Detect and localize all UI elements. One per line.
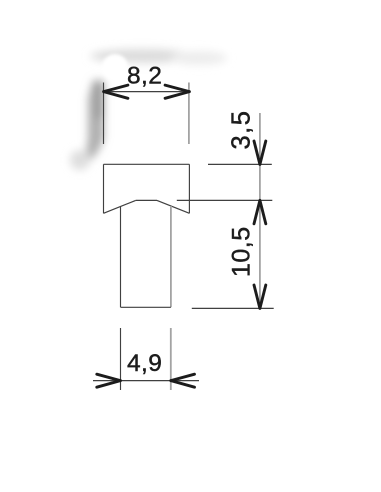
- extension line at stem bottom right: [192, 307, 274, 309]
- dim 8,2 left extension line: [103, 83, 105, 145]
- dim 4,9 dimension line with tails: [93, 380, 199, 382]
- dim 8,2 left arrowhead: [104, 85, 128, 98]
- dim 10,5 lower arrowhead (points down): [254, 285, 266, 308]
- dim 4,9 right extension line (light): [170, 328, 172, 390]
- dim 8,2 right arrowhead: [165, 85, 189, 98]
- dim 3,5 upper arrowhead (points down): [254, 141, 266, 164]
- dim 3,5/10,5 vertical dimension line (light): [259, 113, 261, 308]
- svg-text:3,5: 3,5: [228, 110, 256, 150]
- extension line at head top right: [208, 163, 272, 165]
- svg-text:10,5: 10,5: [228, 226, 256, 277]
- scan shadow smudge cloud: [70, 49, 227, 170]
- head bottom left diagonal: [104, 200, 136, 213]
- stem right edge (light): [170, 206, 172, 307]
- head right edge: [188, 164, 190, 213]
- head top edge: [104, 163, 190, 165]
- white notch circle: [102, 54, 135, 87]
- dim 8,2 dimension line: [104, 91, 190, 93]
- extension line at notch flat level: [177, 199, 272, 201]
- stem left edge: [120, 207, 122, 308]
- head bottom right diagonal: [157, 200, 189, 213]
- stem bottom edge: [121, 306, 171, 308]
- dim 3,5 / 10,5 shared arrowhead (points up): [254, 200, 266, 223]
- dim 4,9 right arrowhead (points left): [171, 374, 195, 387]
- head left edge: [103, 164, 105, 213]
- svg-text:8,2: 8,2: [127, 63, 162, 90]
- head bottom flat: [136, 199, 157, 201]
- svg-text:4,9: 4,9: [127, 350, 162, 377]
- dim 4,9 left arrowhead (points right): [97, 374, 121, 387]
- dim 8,2 right extension line (light): [188, 83, 190, 145]
- dim 4,9 left extension line: [120, 328, 122, 390]
